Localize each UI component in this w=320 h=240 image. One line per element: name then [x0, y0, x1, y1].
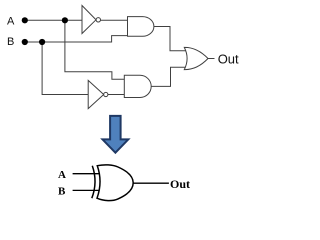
inverter NOT1 [82, 6, 101, 34]
svg-text:B: B [58, 186, 66, 198]
svg-text:Out: Out [218, 51, 239, 66]
wire NOT2 output [108, 94, 124, 96]
wire AND2 output to OR [151, 67, 186, 86]
wire xor input B [73, 189, 100, 191]
AND gate 2 [124, 75, 151, 97]
wire AND1 output to OR [154, 27, 186, 51]
block arrow down [103, 116, 129, 153]
wire A branch to AND2 [65, 20, 124, 79]
svg-text:Out: Out [170, 177, 190, 191]
wire NOT1 output [101, 19, 128, 21]
node A junction [62, 17, 68, 23]
node B junction [39, 39, 45, 45]
node B input [22, 39, 28, 45]
svg-text:A: A [7, 16, 15, 28]
wire B [25, 36, 128, 42]
wire xor input A [73, 173, 100, 175]
AND gate 1 [128, 17, 154, 37]
wire A [25, 19, 82, 21]
node A input [22, 17, 28, 23]
XOR extra input arc [92, 166, 95, 199]
OR gate [184, 47, 208, 69]
XOR gate body [97, 165, 133, 201]
svg-text:B: B [7, 36, 14, 48]
wire OR output [208, 58, 215, 60]
wire B branch to NOT2 [42, 42, 88, 95]
svg-text:A: A [58, 169, 66, 181]
wire xor output [133, 182, 169, 184]
inverter NOT2 [88, 80, 108, 108]
